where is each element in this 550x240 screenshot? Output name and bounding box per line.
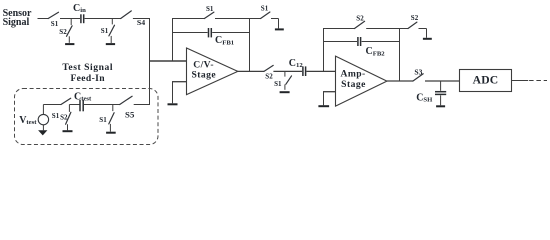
voltage source V_test xyxy=(38,105,48,131)
switch S1 (shunt branch after C_in) xyxy=(101,19,115,44)
svg-text:Cin: Cin xyxy=(73,3,86,14)
svg-text:S4: S4 xyxy=(137,18,145,27)
capacitor C_SH (sample and hold) xyxy=(435,81,446,105)
svg-text:Vtest: Vtest xyxy=(19,115,37,126)
switch S1 (test shunt branch 2) xyxy=(99,105,114,132)
svg-text:ADC: ADC xyxy=(473,74,499,87)
svg-text:S1: S1 xyxy=(52,112,60,120)
op-amp U1 C/V-Stage xyxy=(187,48,238,95)
wire C/V input node xyxy=(149,60,187,62)
wire C/V feedback top line xyxy=(172,18,204,20)
wire xyxy=(362,41,400,43)
wire test box xyxy=(43,104,61,106)
capacitor C_FB1 xyxy=(209,28,212,37)
wire amp feedback top line xyxy=(323,28,355,30)
wire xyxy=(84,104,120,106)
svg-text:CFB2: CFB2 xyxy=(366,46,386,57)
wire C/V output xyxy=(237,70,264,72)
switch S4 (series) xyxy=(121,11,146,27)
svg-text:Stage: Stage xyxy=(341,79,366,90)
wire amp non-inverting input xyxy=(323,92,336,106)
wire xyxy=(366,28,408,30)
ground (test S1 branch) xyxy=(106,132,116,134)
wire xyxy=(60,18,80,20)
svg-text:S1: S1 xyxy=(101,27,109,35)
test signal feed-in dashed box xyxy=(15,89,159,145)
svg-text:Amp-: Amp- xyxy=(340,68,365,79)
switch S1 (test series) xyxy=(52,98,71,120)
svg-text:S1: S1 xyxy=(274,80,282,88)
capacitor C_test xyxy=(80,100,83,112)
svg-text:S2: S2 xyxy=(411,14,419,22)
svg-text:C12: C12 xyxy=(289,58,304,69)
wire amp output feedback vertical xyxy=(399,29,401,82)
svg-text:CFB1: CFB1 xyxy=(215,35,234,46)
switch S2 (amp feedback reset) xyxy=(355,14,365,28)
svg-text:S3: S3 xyxy=(414,67,422,76)
wire C/V non-inverting input xyxy=(172,82,187,104)
wire xyxy=(425,80,460,82)
ground (S2 branch) xyxy=(65,43,74,45)
wire xyxy=(134,104,150,106)
wire dashed continuation xyxy=(529,80,547,82)
wire sensor input xyxy=(38,18,49,20)
ground (C_SH) xyxy=(436,105,445,107)
block ADC xyxy=(460,70,512,92)
svg-text:S1: S1 xyxy=(51,20,59,28)
svg-text:S2: S2 xyxy=(59,28,67,36)
switch S5 (test series out) xyxy=(120,96,135,119)
ground (S1 branch) xyxy=(106,43,115,45)
svg-text:S2: S2 xyxy=(356,14,364,22)
wire ADC output xyxy=(512,80,529,82)
capacitor C_12 xyxy=(303,66,306,76)
switch S1 (sensor series) xyxy=(48,12,58,28)
capacitor C_FB2 xyxy=(358,37,361,46)
svg-text:S2: S2 xyxy=(60,114,68,122)
wire xyxy=(271,19,279,29)
wire vertical to C/V input node xyxy=(149,19,151,105)
switch S1 (C/V output reset to ground) xyxy=(261,5,270,19)
ground (mid S1 branch) xyxy=(280,91,290,93)
wire amp output xyxy=(387,80,413,82)
label Test Signal Feed-In xyxy=(62,62,113,84)
svg-text:S5: S5 xyxy=(125,110,135,120)
wire xyxy=(69,104,79,106)
svg-text:S1: S1 xyxy=(261,5,269,13)
wire xyxy=(212,32,249,34)
switch S2 (test shunt branch) xyxy=(60,105,71,131)
ground (test S2 branch) xyxy=(63,130,73,132)
svg-text:Stage: Stage xyxy=(191,70,216,81)
wire C/V feedback cap line xyxy=(172,32,208,34)
wire xyxy=(133,18,150,20)
svg-text:S1: S1 xyxy=(99,116,107,124)
svg-text:Signal: Signal xyxy=(3,17,30,28)
node Sensor Signal input label xyxy=(3,8,32,28)
ground (C/V non-inverting input) xyxy=(168,103,178,105)
svg-text:CSH: CSH xyxy=(416,93,433,104)
wire feedback tap vertical xyxy=(172,19,174,62)
wire xyxy=(215,18,261,20)
ground (amp reset) xyxy=(423,38,432,40)
wire xyxy=(306,70,335,72)
wire amp feedback tap vertical xyxy=(323,29,325,72)
ground (V_test, arrow style) xyxy=(38,130,47,135)
wire xyxy=(273,70,302,72)
switch S2 (series mid) xyxy=(264,65,273,80)
ground (C/V reset) xyxy=(275,28,284,30)
wire C/V output feedback vertical xyxy=(249,19,251,72)
switch S2 (shunt branch to ground) xyxy=(59,19,72,43)
switch S3 (series out) xyxy=(413,67,423,81)
switch S2 (amp output reset to ground) xyxy=(408,14,419,28)
switch S1 (mid shunt branch) xyxy=(274,71,291,89)
svg-text:Test Signal: Test Signal xyxy=(62,62,113,73)
wire xyxy=(85,18,121,20)
switch S1 (C/V feedback reset) xyxy=(204,5,214,18)
wire amp feedback cap line xyxy=(323,41,357,43)
wire xyxy=(419,29,427,38)
svg-text:S2: S2 xyxy=(265,73,273,81)
capacitor C_in xyxy=(81,14,84,23)
svg-text:S1: S1 xyxy=(206,5,214,13)
ground (amp non-inverting input) xyxy=(318,105,329,107)
op-amp U2 Amp-Stage xyxy=(336,56,387,106)
svg-text:Feed-In: Feed-In xyxy=(70,73,105,84)
